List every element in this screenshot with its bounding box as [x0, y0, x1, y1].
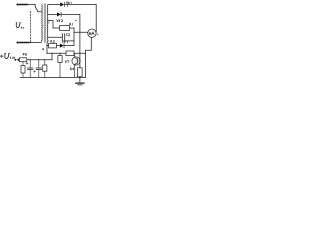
label +Uout — [0, 54, 15, 59]
label R1 — [70, 23, 73, 25]
wire: meter bottom loop to x=85.6 — [86, 37, 92, 77]
wire: mid horizontal to meter — [74, 31, 88, 33]
node: small mark left of VD2 column — [75, 19, 77, 21]
wire: VD2 column continues down — [79, 32, 81, 68]
label tick near meter — [97, 33, 99, 36]
wire: bottom input lead (thick) — [19, 42, 29, 44]
curl on secondary winding — [48, 21, 51, 24]
label VD2 — [57, 20, 63, 22]
label R2 — [51, 40, 55, 42]
wire: R1 right lead — [70, 27, 75, 29]
resistor R2 (horizontal) — [49, 43, 57, 48]
node A: top-left input terminal — [16, 3, 18, 5]
wire: output bus — [27, 59, 52, 61]
wire: secondary bottom lead down — [47, 41, 48, 53]
label VD1 — [66, 2, 71, 4]
diode VD1 — [60, 2, 64, 6]
transistor VT1 base lead — [77, 60, 80, 62]
wire: switch tap to transformer primary — [38, 11, 41, 13]
node: junction of VD2 line — [79, 32, 80, 33]
wire: top input lead (thick) — [19, 4, 28, 6]
resistor R7 (vertical) — [44, 60, 46, 65]
resistor R1 (horizontal, mid) — [60, 26, 70, 31]
node: junction tick under top wire — [67, 5, 69, 7]
wire: ground rail — [20, 76, 86, 78]
resistor R4 (vertical, base bias) — [78, 68, 83, 77]
wire: secondary lower tap to C2 — [48, 36, 62, 38]
transformer T1 core — [43, 4, 45, 43]
label a: transformer bottom terminal — [42, 48, 44, 50]
resistor R5 (vertical, mid) — [59, 53, 61, 55]
label VD3 — [62, 41, 68, 43]
transistor VT1 emitter with arrow — [75, 63, 78, 78]
label VT1 — [65, 61, 69, 63]
transformer T1 primary winding — [40, 5, 43, 43]
resistor R6 (vertical, bleeder) — [22, 62, 24, 66]
wire: VD3 to node column — [64, 45, 74, 47]
wire: bottom input to primary — [29, 42, 41, 44]
wire: center tap to R1 — [53, 27, 60, 29]
wire: C2 right lead — [65, 40, 74, 42]
wire: node column x=74 — [73, 28, 75, 46]
label C2 — [66, 34, 70, 36]
transistor VT1 base bar — [76, 59, 78, 64]
ground — [76, 82, 84, 84]
switch mechanical link (dashed) — [30, 11, 32, 42]
node: junction at x=80 — [79, 53, 80, 54]
diode VD2 — [57, 12, 61, 16]
wire: VD2 cathode right then down — [61, 14, 80, 32]
capacitor C3 (vertical, electrolytic) — [29, 60, 31, 68]
wire: secondary center tap — [48, 21, 53, 29]
resistor R3 (horizontal) — [66, 51, 74, 56]
label U~ input voltage — [16, 23, 24, 29]
wire: R4 to ground — [79, 77, 81, 83]
meter PA1 (mA) — [88, 29, 96, 37]
wire: output arrowhead — [17, 59, 20, 62]
switch S1 blade — [35, 5, 37, 11]
node dots on bus and rail — [30, 59, 31, 60]
wire: R3 right lead across to meter return — [74, 52, 86, 54]
fuse FU1 — [19, 58, 27, 62]
wire: top input to switch — [28, 4, 36, 6]
transistor VT1 circle — [72, 57, 80, 65]
transformer T1 secondary winding — [46, 5, 49, 42]
node: base junction — [79, 60, 80, 61]
wire: VD1 cathode to top-right corner — [64, 4, 96, 6]
transistor VT1 collector — [75, 53, 78, 59]
wire: bus corner up to row — [51, 53, 53, 60]
capacitor C4 (vertical) — [38, 60, 40, 68]
wire: branch to R2 — [47, 45, 49, 47]
node: output terminal — [14, 59, 16, 61]
wire: top-right corner down to meter — [95, 5, 97, 33]
diode VD3 — [60, 44, 64, 48]
label R4 — [71, 68, 75, 70]
capacitor C2 plates — [61, 34, 63, 41]
wire: secondary mid tap to VD2 — [48, 13, 57, 15]
node B: bottom-left input terminal — [16, 41, 18, 43]
wire: R2 to VD3 — [57, 45, 60, 47]
label + of C4 — [33, 70, 35, 72]
wire: secondary top tap to VD1 — [48, 4, 60, 6]
wire: lower horizontal row y=53.3 — [47, 52, 66, 54]
label + of C3 — [26, 62, 28, 64]
label FU1 — [23, 53, 27, 55]
